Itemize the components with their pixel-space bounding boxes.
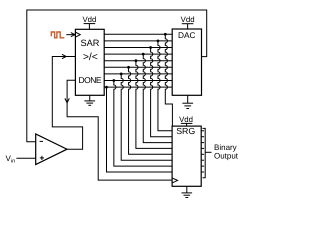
wire tap line 4 staircase to SRG input 3 <box>143 54 172 143</box>
SRG box U3 <box>172 126 201 186</box>
wire clock arrowhead right <box>71 33 75 37</box>
node junction dot line 1 <box>164 33 167 36</box>
svg-text:Output: Output <box>214 152 239 161</box>
wire bus line 5 SAR to DAC <box>104 60 172 62</box>
wire bus line 1 SAR to DAC <box>104 33 172 35</box>
ground SRG <box>182 186 193 197</box>
wire bus line 4 SAR to DAC <box>104 53 172 55</box>
wire tap line 8 staircase to SRG input 7 <box>114 81 172 167</box>
wire bus line 6 SAR to DAC <box>104 66 172 68</box>
wire tap line 7 staircase to SRG input 6 <box>121 74 172 160</box>
clock waveform orange <box>51 32 64 38</box>
node junction dot line 2 <box>157 40 160 43</box>
wire bus line 3 SAR to DAC <box>104 47 172 49</box>
svg-text:Vdd: Vdd <box>179 115 193 124</box>
wire feedback loop top: DAC output around to comparator minus input <box>27 10 207 142</box>
bracket binary output <box>203 128 206 177</box>
svg-text:SRG: SRG <box>176 126 195 136</box>
node junction dot line 7 <box>120 73 123 76</box>
DAC box U2 <box>172 29 201 95</box>
wire tap line 5 staircase to SRG input 4 <box>136 61 172 149</box>
wire bus line 2 SAR to DAC <box>104 40 172 42</box>
ground SAR <box>84 95 95 105</box>
node junction dot line 9 <box>105 86 108 89</box>
wire Vin input to comparator plus <box>16 157 35 159</box>
wire tap line 9 staircase to SRG input 8 <box>107 87 173 172</box>
svg-text:Vdd: Vdd <box>181 15 195 24</box>
wire tap line 2 staircase to SRG input 1 <box>158 41 172 131</box>
SRG output ticks <box>201 131 204 172</box>
Vdd symbol DAC <box>182 24 194 29</box>
Vdd symbol SAR <box>84 24 96 30</box>
Vdd symbol SRG <box>181 123 193 126</box>
wire bus line 8 SAR to DAC <box>104 80 172 82</box>
wire DONE arrowhead down <box>65 98 69 102</box>
svg-text:DONE: DONE <box>79 75 102 85</box>
node junction dot line 5 <box>135 59 138 62</box>
wire bracket to label <box>205 151 211 153</box>
node junction dot line 6 <box>127 66 130 69</box>
wire loop arrowhead right <box>62 54 66 58</box>
wire bus line 9 SAR to DAC <box>104 86 172 88</box>
wire tap line 1 down past DAC to SRG top corner <box>165 34 172 126</box>
svg-text:>/<: >/< <box>83 52 98 63</box>
SAR box U1 <box>75 29 104 95</box>
wire tap line 3 staircase to SRG input 2 <box>151 48 173 137</box>
svg-text:Vdd: Vdd <box>82 15 96 24</box>
svg-text:DAC: DAC <box>178 30 196 40</box>
wire bus line 7 SAR to DAC <box>104 73 172 75</box>
comparator plus <box>40 156 44 160</box>
comparator U4 <box>36 134 67 165</box>
comparator minus <box>40 140 43 142</box>
node junction dot line 3 <box>149 46 152 49</box>
wire DONE output from SAR down across to SRG clock <box>67 80 172 180</box>
SRG clock wedge <box>172 178 178 183</box>
wire clock input line to SAR <box>66 34 75 36</box>
node junction dot line 4 <box>142 53 145 56</box>
ground DAC <box>182 95 193 108</box>
node junction dot line 8 <box>112 79 115 82</box>
svg-text:SAR: SAR <box>81 38 100 48</box>
wire tap line 6 staircase to SRG input 5 <box>129 67 173 154</box>
SAR clock wedge <box>75 32 80 37</box>
wire comparator output loop up to SAR input <box>52 57 82 150</box>
